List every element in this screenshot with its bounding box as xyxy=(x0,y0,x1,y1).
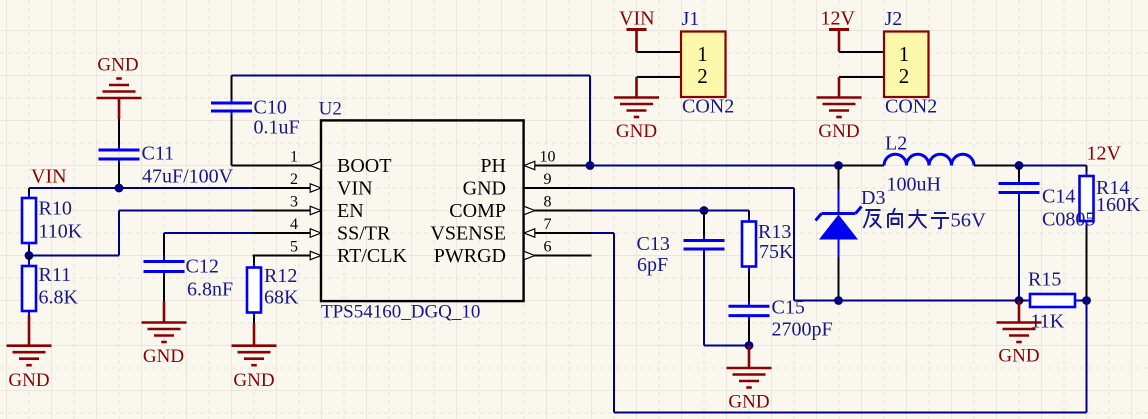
resistor R10 body xyxy=(22,198,36,243)
junction C13/C15/GND xyxy=(745,341,754,350)
svg-text:C11: C11 xyxy=(142,143,175,165)
pin 5 RT/CLK xyxy=(253,255,322,257)
capacitor C10 xyxy=(231,99,233,103)
svg-text:5: 5 xyxy=(290,239,298,256)
svg-text:GND: GND xyxy=(8,370,49,391)
pin 6 direction arrow xyxy=(524,251,535,259)
svg-text:GND: GND xyxy=(97,55,138,76)
resistor R14 body xyxy=(1080,176,1094,221)
capacitor C15 xyxy=(748,302,750,307)
svg-text:68K: 68K xyxy=(264,286,299,308)
svg-text:R13: R13 xyxy=(758,221,791,243)
svg-text:C15: C15 xyxy=(772,297,805,319)
svg-text:0.1uF: 0.1uF xyxy=(254,117,300,139)
ground symbol (top left, flipped) xyxy=(97,79,142,99)
gnd stem J2 xyxy=(838,77,841,98)
resistor R10 xyxy=(28,188,30,194)
junction R15 right/R14/VSENSE xyxy=(1082,296,1091,305)
wire GND to C11 xyxy=(118,119,120,146)
capacitor C15 plates xyxy=(729,306,770,315)
power bar 12V xyxy=(829,28,849,31)
svg-text:BOOT: BOOT xyxy=(337,155,391,177)
svg-text:VIN: VIN xyxy=(31,166,67,188)
svg-text:VSENSE: VSENSE xyxy=(430,223,506,245)
gnd stem C15 xyxy=(748,346,751,369)
svg-text:CON2: CON2 xyxy=(885,96,937,118)
svg-text:1: 1 xyxy=(899,42,910,66)
svg-text:C0805: C0805 xyxy=(1042,209,1095,231)
svg-text:2: 2 xyxy=(899,64,910,88)
pin 9 GND xyxy=(524,187,592,189)
resistor R12 xyxy=(253,256,255,264)
svg-text:U2: U2 xyxy=(319,98,342,119)
wire 12V to J2 pin1 xyxy=(839,51,884,53)
svg-text:SS/TR: SS/TR xyxy=(337,223,391,245)
resistor R13 body xyxy=(742,222,756,267)
pin 2 VIN xyxy=(253,187,322,189)
svg-text:6pF: 6pF xyxy=(637,254,668,276)
svg-text:R10: R10 xyxy=(39,198,72,220)
wire COMP net xyxy=(592,210,750,212)
wire J2 pin2 to GND xyxy=(839,76,884,78)
wire EN net xyxy=(29,255,119,257)
pin 8 COMP xyxy=(524,210,592,212)
svg-text:GND: GND xyxy=(143,346,184,367)
svg-text:2700pF: 2700pF xyxy=(772,319,833,341)
svg-text:PH: PH xyxy=(480,155,506,177)
svg-text:2: 2 xyxy=(697,64,708,88)
svg-text:1: 1 xyxy=(697,42,708,66)
resistor R15 body xyxy=(1030,294,1075,307)
svg-text:VIN: VIN xyxy=(337,178,373,200)
svg-text:VIN: VIN xyxy=(619,8,655,30)
resistor R13 xyxy=(748,217,750,222)
svg-text:C13: C13 xyxy=(637,233,670,255)
wire R13 to C15 xyxy=(748,271,750,302)
svg-text:GND: GND xyxy=(728,392,769,413)
junction D3 bottom xyxy=(834,296,843,305)
capacitor C10 plates xyxy=(211,103,252,111)
svg-text:12V: 12V xyxy=(1087,143,1122,165)
svg-text:110K: 110K xyxy=(39,221,83,243)
svg-text:1: 1 xyxy=(290,149,298,166)
svg-text:4: 4 xyxy=(290,216,298,233)
pin 7 VSENSE xyxy=(524,232,592,234)
pin 10 PH xyxy=(524,165,592,167)
pin 8 direction arrow xyxy=(524,206,535,214)
pin 7 direction arrow xyxy=(524,229,535,237)
capacitor C12 plates xyxy=(144,262,185,272)
svg-text:GND: GND xyxy=(998,346,1039,367)
junction PH/bootstrap xyxy=(586,161,595,170)
gnd stem xyxy=(118,98,121,119)
node PH rail xyxy=(592,165,839,167)
svg-text:10: 10 xyxy=(540,149,556,166)
svg-text:RT/CLK: RT/CLK xyxy=(337,245,407,267)
resistor R12 body xyxy=(247,268,261,313)
svg-text:100uH: 100uH xyxy=(887,174,941,196)
svg-text:GND: GND xyxy=(463,178,506,200)
capacitor C14 xyxy=(1018,166,1020,180)
value 反向大于56V xyxy=(864,208,950,228)
junction C14 top xyxy=(1015,161,1024,170)
stem VIN xyxy=(635,30,638,53)
svg-text:8: 8 xyxy=(544,194,552,211)
pin 6 PWRGD xyxy=(524,255,592,257)
pin 4 direction arrow xyxy=(310,229,321,237)
svg-text:J1: J1 xyxy=(682,8,700,30)
svg-text:D3: D3 xyxy=(861,187,885,209)
gnd stem R12 xyxy=(253,323,256,346)
wire VIN to J1 pin1 xyxy=(637,51,682,53)
pin 1 BOOT xyxy=(253,165,322,167)
wire R11 to GND xyxy=(28,316,31,346)
wire C10 top xyxy=(231,76,233,100)
diode D3 (zener) xyxy=(838,166,840,190)
ground symbol under C15 xyxy=(727,368,772,388)
wire C15 bottom xyxy=(748,320,750,346)
svg-text:COMP: COMP xyxy=(449,200,506,222)
svg-text:R15: R15 xyxy=(1028,269,1061,291)
svg-text:160K: 160K xyxy=(1096,194,1141,216)
capacitor C12 xyxy=(163,256,165,262)
ground symbol under R12 xyxy=(232,346,277,366)
svg-text:2: 2 xyxy=(290,171,298,188)
svg-text:GND: GND xyxy=(233,370,274,391)
svg-text:R12: R12 xyxy=(264,265,297,287)
pin 3 direction arrow xyxy=(310,206,321,214)
pin 10 direction arrow xyxy=(524,161,535,169)
wire VIN net horizontal xyxy=(29,187,253,189)
wire R10 to node xyxy=(28,248,30,256)
ground symbol under J1 xyxy=(614,98,659,118)
connector J1 xyxy=(681,32,726,98)
svg-text:9: 9 xyxy=(544,171,552,188)
resistor R14 xyxy=(1086,166,1088,172)
stem 12V xyxy=(838,30,841,53)
wire L2 to C14 node xyxy=(974,165,1019,167)
svg-text:12V: 12V xyxy=(821,8,856,30)
wire top rail (BOOT-PH bootstrap) xyxy=(232,75,591,77)
wire D3 node to L2 xyxy=(839,165,885,167)
junction D3 top xyxy=(834,161,843,170)
svg-text:C10: C10 xyxy=(254,97,287,119)
svg-text:6.8K: 6.8K xyxy=(39,286,79,308)
svg-text:PWRGD: PWRGD xyxy=(434,245,506,267)
power bar VIN xyxy=(627,28,647,31)
resistor R11 body xyxy=(22,266,36,311)
svg-text:J2: J2 xyxy=(885,8,903,30)
ground symbol under R11 xyxy=(7,346,52,366)
capacitor C13 plates xyxy=(684,241,725,250)
ground symbol under J2 xyxy=(817,98,862,118)
junction VIN/C11 xyxy=(115,184,124,193)
ground symbol under C12 xyxy=(142,323,187,343)
svg-text:R11: R11 xyxy=(39,264,72,286)
svg-text:TPS54160_DGQ_10: TPS54160_DGQ_10 xyxy=(321,302,480,323)
wire C12 to GND stem xyxy=(163,276,165,302)
pin 4 SS/TR xyxy=(253,232,322,234)
gnd stem R15 xyxy=(1018,301,1021,323)
wire C14 bottom xyxy=(1018,197,1020,301)
capacitor C11 xyxy=(118,146,120,151)
svg-text:EN: EN xyxy=(337,200,364,222)
svg-text:C12: C12 xyxy=(186,256,219,278)
capacitor C14 plates xyxy=(999,184,1040,193)
svg-text:CON2: CON2 xyxy=(682,96,734,118)
svg-text:GND: GND xyxy=(616,121,657,142)
svg-text:6.8nF: 6.8nF xyxy=(187,279,233,301)
svg-text:C14: C14 xyxy=(1042,186,1075,208)
wire R14 bottom xyxy=(1086,226,1088,301)
junction R10/R11/EN xyxy=(25,251,34,260)
pin 2 direction arrow xyxy=(310,184,321,192)
junction C13 top xyxy=(700,206,709,215)
wire to 12V corner xyxy=(1019,165,1087,167)
svg-text:75K: 75K xyxy=(759,241,794,263)
gnd stem C12 xyxy=(163,302,166,323)
resistor R11 xyxy=(28,256,30,262)
svg-text:L2: L2 xyxy=(885,133,907,155)
svg-text:47uF/100V: 47uF/100V xyxy=(142,166,234,188)
svg-text:7: 7 xyxy=(544,216,552,233)
wire C13 bottom xyxy=(703,254,705,346)
svg-text:56V: 56V xyxy=(951,210,987,232)
wire C10 to BOOT xyxy=(231,115,233,166)
capacitor C13 xyxy=(703,211,705,237)
junction R15 left/GND xyxy=(1015,296,1024,305)
wire SS/TR net xyxy=(164,232,253,234)
svg-text:6: 6 xyxy=(544,239,552,256)
wire J1 pin2 to GND xyxy=(637,76,682,78)
wire VSENSE net xyxy=(592,232,615,234)
svg-text:3: 3 xyxy=(290,194,298,211)
op-amp U2 TPS54160_DGQ_10 body xyxy=(321,120,524,301)
pin 3 EN xyxy=(253,210,322,212)
pin 5 direction arrow xyxy=(310,251,321,259)
capacitor C11 plates xyxy=(99,150,140,159)
pin 1 direction arrow xyxy=(310,161,321,169)
gnd stem J1 xyxy=(635,77,638,98)
ground symbol under R15 xyxy=(997,323,1042,343)
wire GND net (pin 9) xyxy=(592,187,795,189)
wire C11 to VIN net xyxy=(118,164,120,189)
connector J2 xyxy=(884,32,929,98)
svg-text:GND: GND xyxy=(818,121,859,142)
